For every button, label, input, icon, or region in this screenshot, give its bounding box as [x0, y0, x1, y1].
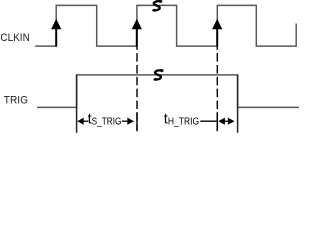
break squiggle on CLKIN high segment	[153, 0, 162, 11]
rising-edge arrow 3 (CLKIN edge at x=217.3)	[212, 19, 222, 47]
hold-time measure tH_TRIG : right arrowhead	[228, 118, 235, 125]
rising-edge arrow 1 (CLKIN edge at x=56.2)	[51, 19, 61, 47]
setup-time measure tS_TRIG : left shaft	[84, 120, 89, 122]
wire CLKIN waveform	[35, 5, 296, 46]
hold-time measure tH_TRIG : leader line from label	[200, 120, 218, 122]
setup-time measure tS_TRIG : right arrowhead	[127, 118, 134, 125]
wire TRIG waveform	[37, 75, 299, 108]
svg-text:CLKIN: CLKIN	[0, 32, 29, 44]
hold-time measure tH_TRIG : center shaft	[225, 120, 228, 122]
svg-text:tS_TRIG: tS_TRIG	[88, 111, 122, 127]
dashed reference line at CLKIN edge 2 (x=137)	[136, 46, 138, 131]
break squiggle on TRIG high segment	[154, 69, 163, 80]
dashed reference line at CLKIN edge 3 (x=217.3)	[216, 46, 218, 131]
TRIG rising-edge emphasis + extension line (x=76.6)	[76, 75, 78, 133]
rising-edge arrow 2 (CLKIN edge at x=136.9)	[132, 19, 142, 47]
setup-time measure tS_TRIG : right shaft	[122, 120, 127, 122]
setup-time measure tS_TRIG : left arrowhead	[77, 118, 84, 125]
svg-text:tH_TRIG: tH_TRIG	[164, 111, 200, 127]
TRIG falling-edge emphasis + extension line (x=237.6)	[237, 75, 239, 133]
svg-text:TRIG: TRIG	[4, 95, 28, 107]
hold-time measure tH_TRIG : left arrowhead	[218, 118, 225, 125]
